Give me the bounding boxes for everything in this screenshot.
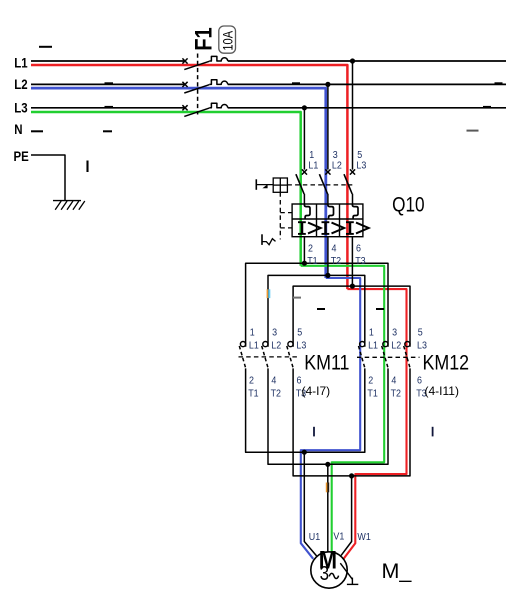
svg-text:U1: U1 bbox=[309, 531, 320, 543]
svg-text:3: 3 bbox=[392, 327, 397, 339]
svg-text:6: 6 bbox=[356, 243, 361, 255]
svg-text:M_: M_ bbox=[382, 559, 413, 583]
svg-text:L1: L1 bbox=[249, 340, 259, 352]
svg-text:5: 5 bbox=[297, 327, 302, 339]
svg-text:V1: V1 bbox=[333, 531, 344, 543]
svg-text:L2: L2 bbox=[14, 77, 27, 92]
svg-text:2: 2 bbox=[308, 243, 313, 255]
svg-text:T3: T3 bbox=[355, 255, 365, 267]
svg-text:1: 1 bbox=[250, 327, 255, 339]
svg-text:T1: T1 bbox=[248, 388, 258, 400]
svg-text:T1: T1 bbox=[307, 255, 317, 267]
svg-text:4: 4 bbox=[271, 375, 276, 387]
svg-text:T2: T2 bbox=[271, 388, 281, 400]
svg-text:10A: 10A bbox=[221, 30, 236, 50]
svg-text:L1: L1 bbox=[368, 340, 378, 352]
svg-text:(4-I7): (4-I7) bbox=[302, 384, 331, 398]
svg-text:3: 3 bbox=[320, 562, 329, 585]
svg-text:L2: L2 bbox=[271, 340, 281, 352]
svg-text:PE: PE bbox=[14, 149, 29, 164]
svg-text:W1: W1 bbox=[357, 531, 370, 543]
svg-text:L3: L3 bbox=[356, 160, 366, 172]
svg-text:L1: L1 bbox=[308, 160, 318, 172]
svg-text:L3: L3 bbox=[14, 101, 27, 116]
svg-text:T1: T1 bbox=[367, 388, 377, 400]
svg-text:(4-I11): (4-I11) bbox=[425, 384, 459, 398]
svg-text:4: 4 bbox=[391, 375, 396, 387]
svg-text:2: 2 bbox=[368, 375, 373, 387]
svg-text:4: 4 bbox=[332, 243, 337, 255]
svg-text:L3: L3 bbox=[417, 340, 427, 352]
svg-text:5: 5 bbox=[418, 327, 423, 339]
svg-text:L3: L3 bbox=[296, 340, 306, 352]
svg-text:L1: L1 bbox=[14, 56, 27, 71]
svg-text:T2: T2 bbox=[331, 255, 341, 267]
svg-text:F1: F1 bbox=[190, 27, 217, 51]
svg-text:L2: L2 bbox=[391, 340, 401, 352]
svg-text:KM11: KM11 bbox=[304, 351, 349, 375]
svg-text:2: 2 bbox=[249, 375, 254, 387]
svg-text:T2: T2 bbox=[391, 388, 401, 400]
svg-text:Q10: Q10 bbox=[392, 193, 425, 217]
svg-text:N: N bbox=[14, 122, 22, 137]
svg-text:1: 1 bbox=[369, 327, 374, 339]
svg-text:KM12: KM12 bbox=[423, 351, 470, 375]
svg-text:6: 6 bbox=[417, 375, 422, 387]
svg-text:3: 3 bbox=[272, 327, 277, 339]
svg-text:L2: L2 bbox=[332, 160, 342, 172]
